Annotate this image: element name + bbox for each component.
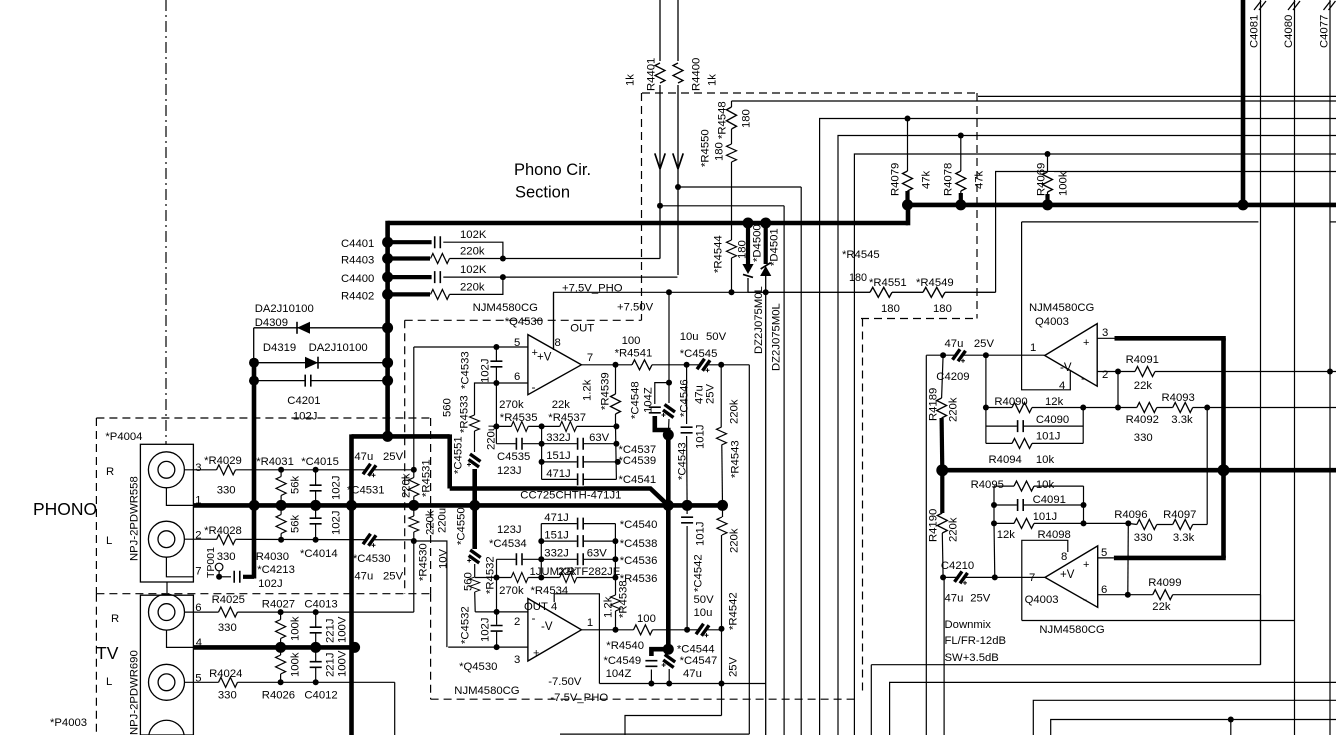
- svg-text:NJM4580CG: NJM4580CG: [1039, 624, 1104, 636]
- thick corner to CC725 line: [447, 434, 452, 488]
- resistor R4078 47k: [954, 171, 967, 191]
- supply loop upper Q4003: [1022, 222, 1071, 390]
- svg-text:R: R: [106, 466, 114, 478]
- chassis dash-dot between connectors: [166, 582, 168, 596]
- svg-text:100k: 100k: [290, 616, 302, 641]
- svg-text:63V: 63V: [587, 548, 608, 560]
- svg-text:1k: 1k: [625, 74, 637, 86]
- wire pin5 corner down: [394, 682, 396, 735]
- zener D4501 wire: [764, 223, 768, 264]
- wire corner L1 y=118.5: [820, 119, 1336, 735]
- capacitor C4077 line: [1329, 0, 1331, 735]
- svg-text:C4210: C4210: [941, 560, 974, 572]
- svg-text:*C4015: *C4015: [301, 456, 339, 468]
- wire corner E y=719.5: [1051, 720, 1336, 735]
- svg-text:25V: 25V: [728, 656, 740, 677]
- svg-text:*C4538: *C4538: [620, 538, 658, 550]
- svg-text:Downmix: Downmix: [945, 619, 992, 631]
- svg-text:101J: 101J: [695, 522, 707, 547]
- svg-text:C4401: C4401: [341, 238, 374, 250]
- shunt arm C4550 R4532: [472, 505, 477, 549]
- diode D4319: [254, 362, 388, 364]
- svg-text:123J: 123J: [497, 465, 522, 477]
- svg-text:4: 4: [551, 601, 557, 613]
- svg-text:*R4533: *R4533: [459, 395, 471, 433]
- svg-text:*R4534: *R4534: [531, 585, 569, 597]
- svg-text:*C4551: *C4551: [453, 436, 465, 474]
- pin3 wire: [448, 646, 528, 648]
- svg-text:10u: 10u: [694, 607, 713, 619]
- svg-text:R4095: R4095: [971, 479, 1004, 491]
- svg-text:100k: 100k: [290, 652, 302, 677]
- svg-text:DA2J10100: DA2J10100: [309, 342, 368, 354]
- svg-text:330: 330: [217, 551, 236, 563]
- svg-text:*C4544: *C4544: [677, 644, 715, 656]
- svg-text:6: 6: [1101, 584, 1107, 596]
- svg-text:*P4003: *P4003: [50, 717, 87, 729]
- capacitor C4545 10u 50V electrolytic: [699, 360, 709, 370]
- svg-text:101J: 101J: [1036, 431, 1061, 443]
- svg-text:1: 1: [587, 617, 593, 629]
- svg-text:180: 180: [881, 303, 900, 315]
- bus junction R4079: [905, 191, 909, 205]
- lower feedback R4095 row: [994, 485, 1084, 487]
- wire D4501 down to -7.5V rail and bottom: [765, 276, 767, 735]
- svg-text:22k: 22k: [1152, 601, 1171, 613]
- junction pin2 C4532: [494, 609, 500, 615]
- feedback R4090 row: [985, 355, 987, 443]
- svg-text:102J: 102J: [331, 511, 343, 536]
- svg-text:R4026: R4026: [262, 690, 295, 702]
- wire jack TVR to pin4: [167, 630, 194, 647]
- wire vertical net A from top: [659, 0, 661, 61]
- capacitor C4015 102J: [315, 470, 317, 506]
- svg-text:R4027: R4027: [262, 599, 295, 611]
- wire R4551 R4549 row y=292.3: [748, 291, 996, 293]
- capacitor C4548 104Z: [655, 383, 669, 404]
- jack PHONO L: [148, 521, 184, 557]
- thick line CC725CHTH-471J1: [450, 489, 669, 506]
- main bus y=505.4: [193, 503, 726, 508]
- resistor R4539 1.2k: [615, 365, 617, 427]
- svg-text:R4090: R4090: [994, 396, 1027, 408]
- ladder middle rail upper: [541, 426, 543, 479]
- op-amp Q4003 B triangle mirrored: [1045, 546, 1098, 607]
- svg-text:*R4535: *R4535: [500, 412, 538, 424]
- svg-text:R4098: R4098: [1038, 529, 1071, 541]
- svg-text:220k: 220k: [425, 510, 437, 535]
- svg-text:4: 4: [1059, 380, 1065, 392]
- wire output down x=749.3: [748, 365, 750, 734]
- svg-text:Q4003: Q4003: [1025, 594, 1059, 606]
- wire rowA' to R4532 top: [475, 577, 497, 579]
- svg-text:+: +: [1083, 559, 1089, 571]
- svg-text:332J: 332J: [544, 548, 569, 560]
- svg-text:*P4004: *P4004: [105, 431, 142, 443]
- junction C4012: [313, 679, 319, 685]
- wire R4093 to lower row: [1206, 408, 1208, 525]
- svg-text:25V: 25V: [383, 451, 404, 463]
- svg-text:*C4534: *C4534: [489, 538, 527, 550]
- svg-text:22k: 22k: [552, 399, 571, 411]
- svg-text:221J: 221J: [325, 619, 337, 644]
- svg-text:220k: 220k: [401, 473, 413, 498]
- supply stub C4077 right edge: [1330, 221, 1336, 223]
- capacitor C4532 102J: [496, 612, 498, 647]
- ladder right rail upper: [615, 426, 618, 479]
- svg-text:*C4546: *C4546: [679, 379, 691, 417]
- chassis ground dash-dot line: [165, 0, 167, 444]
- svg-text:47u: 47u: [945, 593, 964, 605]
- svg-text:7: 7: [587, 352, 593, 364]
- bus junctions: [276, 500, 287, 511]
- svg-text:R4403: R4403: [341, 255, 374, 267]
- svg-text:7: 7: [195, 566, 201, 578]
- resistor R4542 220k: [722, 505, 724, 517]
- svg-text:R4094: R4094: [989, 454, 1022, 466]
- svg-text:SW+3.5dB: SW+3.5dB: [945, 652, 999, 664]
- resistor R4540 100: [634, 623, 653, 636]
- svg-text:CC725CHTH-471J1: CC725CHTH-471J1: [520, 490, 621, 502]
- svg-text:*R4543: *R4543: [730, 440, 742, 478]
- svg-text:*C4539: *C4539: [619, 455, 657, 467]
- resistor R4549: [923, 286, 945, 299]
- wire vertical x784 to bottom: [783, 206, 785, 735]
- resistor R4098 12k row: [994, 522, 1128, 524]
- resistor R4030 56k: [280, 505, 282, 539]
- thick bus pin4 y=647.4: [194, 645, 355, 650]
- svg-text:PHONO: PHONO: [33, 499, 97, 519]
- pin1 output wire: [581, 629, 721, 631]
- svg-text:*R4031: *R4031: [256, 456, 294, 468]
- pin6 wire: [475, 383, 528, 430]
- wire corner down x=871.3: [870, 665, 872, 735]
- svg-text:102J: 102J: [258, 578, 283, 590]
- svg-text:*R4530: *R4530: [418, 543, 430, 581]
- wire jack R to pin1: [166, 488, 193, 506]
- junction R4538: [613, 627, 619, 633]
- junction R4031: [278, 467, 284, 473]
- resistor R4027 100k: [280, 612, 282, 647]
- wire corner D y=700.3: [1033, 700, 1336, 735]
- svg-text:R: R: [111, 613, 119, 625]
- svg-text:220k: 220k: [729, 528, 741, 553]
- svg-text:2: 2: [514, 616, 520, 628]
- jack TV R: [149, 594, 185, 630]
- wire +7.5V feed corner y=171.5: [996, 172, 1336, 293]
- svg-text:25V: 25V: [970, 593, 991, 605]
- dashed border right upper: [976, 93, 978, 319]
- svg-text:102J: 102J: [293, 411, 318, 423]
- pin5 wire thick: [1098, 557, 1114, 559]
- Q4530 dashed box left upper: [404, 320, 406, 593]
- resistor R4402: [388, 292, 430, 296]
- wire pin2 to row: [1117, 372, 1119, 408]
- resistor R4091 22k: [1135, 365, 1155, 378]
- svg-text:OUT: OUT: [570, 323, 594, 335]
- junction C4015: [313, 467, 319, 473]
- resistor R4097 3.3k: [1173, 518, 1193, 531]
- row A' R4534 270k 22k: [497, 577, 616, 579]
- svg-text:10V: 10V: [438, 548, 450, 569]
- resistor R4190 220k: [940, 470, 944, 513]
- svg-text:TP001: TP001: [205, 547, 217, 578]
- thick ground joint: [382, 431, 393, 442]
- resistor R4403: [388, 256, 430, 260]
- svg-text:*R4549: *R4549: [916, 277, 954, 289]
- svg-text:1: 1: [1030, 342, 1036, 354]
- svg-text:NJM4580CG: NJM4580CG: [454, 685, 519, 697]
- svg-text:101J: 101J: [695, 425, 707, 450]
- junction C4013: [313, 609, 319, 615]
- thick stub to C4213: [252, 505, 257, 578]
- svg-text:220k: 220k: [460, 282, 485, 294]
- svg-text:102J: 102J: [331, 476, 343, 501]
- svg-text:R4091: R4091: [1126, 354, 1159, 366]
- svg-text:C4090: C4090: [1036, 414, 1069, 426]
- svg-text:330: 330: [218, 690, 237, 702]
- svg-text:8: 8: [555, 337, 561, 349]
- svg-text:220k: 220k: [948, 397, 960, 422]
- row B' C4534 123J and 332J 63V: [497, 558, 616, 560]
- dashed border step: [861, 318, 977, 320]
- svg-text:R4096: R4096: [1114, 509, 1147, 521]
- resistor R4028 330: [217, 533, 236, 546]
- decoupling C4547 47u: [667, 649, 670, 653]
- capacitor C4013 221J 100V: [315, 612, 317, 647]
- thick bus upper left y=223: [388, 221, 908, 226]
- svg-text:C4080: C4080: [1283, 15, 1295, 48]
- wire ladder left to pin7: [993, 523, 996, 577]
- capacitor C4210 47u 25V: [956, 572, 966, 582]
- svg-text:L: L: [106, 535, 112, 547]
- wire corner B y=682.4: [890, 682, 1336, 735]
- svg-text:560: 560: [463, 572, 475, 591]
- svg-text:*R4531: *R4531: [421, 459, 433, 497]
- ladder right rail upper Q4003: [1082, 408, 1084, 444]
- wire output node down: [721, 629, 723, 716]
- svg-text:-: -: [532, 380, 536, 394]
- svg-text:123J: 123J: [497, 524, 522, 536]
- svg-text:C4012: C4012: [304, 690, 337, 702]
- capacitor C4533 102J: [495, 347, 497, 383]
- svg-text:*R4542: *R4542: [728, 592, 740, 630]
- bus junction D4501: [760, 218, 771, 229]
- svg-text:*R4537: *R4537: [548, 412, 586, 424]
- svg-text:*C4213: *C4213: [257, 564, 295, 576]
- svg-text:63V: 63V: [589, 432, 610, 444]
- junction C4209 left: [940, 352, 946, 358]
- +7.5V_PHO rail: [554, 292, 996, 349]
- capacitor C4201: [254, 380, 388, 382]
- svg-text:NJM4580CG: NJM4580CG: [1029, 302, 1094, 314]
- capacitor C4401: [388, 240, 432, 244]
- svg-text:D4309: D4309: [255, 317, 288, 329]
- thick vertical right x=1243: [1241, 0, 1246, 205]
- svg-text:R4097: R4097: [1163, 509, 1196, 521]
- svg-text:2: 2: [1102, 369, 1108, 381]
- resistor R4092 330: [1137, 401, 1157, 414]
- junction R4079 top: [905, 116, 911, 122]
- svg-text:3: 3: [1102, 327, 1108, 339]
- ladder left rail lower: [496, 559, 498, 612]
- svg-text:DA2J10100: DA2J10100: [255, 303, 314, 315]
- svg-text:R4024: R4024: [209, 668, 242, 680]
- wire R4069 column: [1047, 154, 1049, 205]
- thick vertical bus x=387.6: [385, 221, 390, 437]
- signal arrow on net B: [673, 153, 683, 169]
- svg-text:151J: 151J: [544, 530, 569, 542]
- svg-text:56k: 56k: [290, 475, 302, 494]
- svg-text:220u: 220u: [486, 425, 498, 450]
- svg-text:151J: 151J: [546, 450, 571, 462]
- Q4530 dashed box bottom / -7.5V_PHO border: [431, 698, 856, 700]
- svg-text:*R4544: *R4544: [713, 235, 725, 273]
- svg-text:560: 560: [442, 398, 454, 417]
- svg-text:OUT: OUT: [524, 601, 548, 613]
- svg-text:*R4029: *R4029: [204, 455, 242, 467]
- svg-text:Section: Section: [515, 184, 570, 202]
- ladder left rail upper: [495, 383, 497, 444]
- svg-text:12k: 12k: [1045, 396, 1064, 408]
- svg-text:*C4530: *C4530: [353, 553, 391, 565]
- svg-text:*R4541: *R4541: [615, 348, 653, 360]
- svg-text:330: 330: [1134, 432, 1153, 444]
- svg-text:3: 3: [514, 654, 520, 666]
- junction pin6 C4533: [493, 380, 499, 386]
- resistor R4026 100k: [280, 647, 282, 682]
- svg-text:C4201: C4201: [287, 395, 320, 407]
- svg-text:221J: 221J: [325, 653, 337, 678]
- wire output exit bottom: [560, 733, 749, 735]
- svg-text:*R4536: *R4536: [620, 573, 658, 585]
- svg-text:R4402: R4402: [341, 291, 374, 303]
- wire vertical x801 to bottom: [800, 187, 802, 735]
- svg-text:6: 6: [514, 371, 520, 383]
- P4003 TV dashed box: [95, 594, 97, 735]
- rail junction R4544: [729, 289, 735, 295]
- svg-text:47u: 47u: [354, 451, 373, 463]
- junction C4014: [313, 537, 319, 543]
- wire row to right edge: [1207, 407, 1336, 409]
- svg-text:25V: 25V: [383, 571, 404, 583]
- svg-text:22k: 22k: [558, 566, 577, 578]
- junction pin2: [1115, 369, 1121, 375]
- svg-text:L: L: [106, 676, 112, 688]
- Q4530 dashed box left lower: [430, 594, 432, 699]
- thick bus upper right y=204.9: [908, 203, 1336, 208]
- resistor R4541 100: [632, 358, 652, 371]
- svg-text:5: 5: [514, 337, 520, 349]
- svg-text:R4190: R4190: [928, 509, 940, 542]
- wire pin2 L input y=539.8: [184, 538, 413, 541]
- capacitor C4091 101J: [994, 504, 1084, 506]
- svg-text:102J: 102J: [480, 618, 492, 643]
- svg-text:332J: 332J: [546, 432, 571, 444]
- op-amp Q4530 B triangle: [528, 599, 582, 662]
- resistor R4094 10k: [986, 442, 1083, 444]
- dashed border left: [641, 93, 643, 320]
- svg-text:C4209: C4209: [936, 371, 969, 383]
- svg-text:Phono Cir.: Phono Cir.: [514, 161, 591, 179]
- svg-text:101J: 101J: [1033, 511, 1058, 523]
- pin7 wire Q4003B: [943, 576, 1045, 578]
- ladder right rail lower: [614, 524, 616, 578]
- svg-text:+: +: [533, 648, 539, 660]
- svg-text:DZ2J075M0L: DZ2J075M0L: [753, 286, 765, 354]
- op-amp Q4003 A triangle mirrored: [1045, 324, 1098, 387]
- wire node right then down to pin3: [414, 541, 447, 647]
- thick bus jog: [906, 203, 911, 226]
- svg-text:220k: 220k: [460, 246, 485, 258]
- supply decoupling branch x=669: [668, 292, 670, 382]
- wire node down to TV R: [413, 541, 415, 612]
- wire R4542 node exit: [625, 716, 722, 735]
- pin2 wire: [1097, 371, 1336, 373]
- svg-text:25V: 25V: [974, 338, 995, 350]
- resistor R4099 22k: [1153, 588, 1173, 601]
- svg-text:*R4539: *R4539: [600, 372, 612, 410]
- jack TV L: [149, 664, 185, 700]
- svg-text:+7.50V: +7.50V: [617, 302, 654, 314]
- op-amp Q4530 A triangle: [528, 335, 582, 395]
- resistor R4069 100k: [1041, 172, 1054, 192]
- resistor R4551: [870, 286, 892, 299]
- svg-text:*R4532: *R4532: [485, 556, 497, 594]
- svg-text:*D4501: *D4501: [769, 228, 781, 266]
- pin2 wire: [475, 611, 528, 613]
- svg-text:D4319: D4319: [263, 342, 296, 354]
- row B caps C4535 123J and 332J 63V: [496, 443, 616, 445]
- capacitor C4012 221J 100V: [315, 647, 317, 682]
- svg-text:47k: 47k: [974, 170, 986, 189]
- thick ground vertical x=351.5: [349, 434, 354, 735]
- svg-text:R4093: R4093: [1162, 392, 1195, 404]
- bus junction R4069: [1045, 194, 1049, 205]
- svg-text:104Z: 104Z: [606, 668, 632, 680]
- svg-text:FL/FR-12dB: FL/FR-12dB: [945, 635, 1007, 647]
- connector P4004 body: [140, 444, 193, 582]
- svg-text:*R4028: *R4028: [204, 525, 242, 537]
- junction TP001: [216, 574, 222, 580]
- thick bus Q4003 y=470.2: [942, 468, 1336, 473]
- svg-text:+7.5V_PHO: +7.5V_PHO: [562, 283, 623, 295]
- svg-text:R4069: R4069: [1036, 163, 1048, 196]
- junction net B branch: [675, 184, 681, 190]
- resistor R4543 220k: [720, 365, 722, 427]
- wire net A branch to x784: [660, 205, 784, 207]
- svg-text:*Q4530: *Q4530: [459, 661, 497, 673]
- svg-text:180: 180: [849, 272, 867, 284]
- bus junction pin1: [249, 500, 260, 511]
- svg-text:100: 100: [637, 613, 656, 625]
- junction R4096 left: [1125, 520, 1131, 526]
- svg-text:220k: 220k: [948, 517, 960, 542]
- svg-text:*C4533: *C4533: [460, 351, 472, 389]
- junction C4209 right: [983, 352, 989, 358]
- svg-text:102J: 102J: [480, 358, 492, 383]
- resistor R4538 1.2k: [615, 578, 617, 596]
- row C' 151J: [541, 540, 615, 542]
- P4004 PHONO dashed box: [96, 417, 430, 419]
- junction R4030: [278, 537, 284, 543]
- pin6 wire: [1098, 594, 1261, 596]
- wire R4096 node down to pin6: [1127, 523, 1130, 594]
- svg-text:100: 100: [622, 335, 641, 347]
- svg-text:*C4547: *C4547: [680, 655, 718, 667]
- svg-text:*C4542: *C4542: [693, 554, 705, 592]
- junction R4027: [278, 609, 284, 615]
